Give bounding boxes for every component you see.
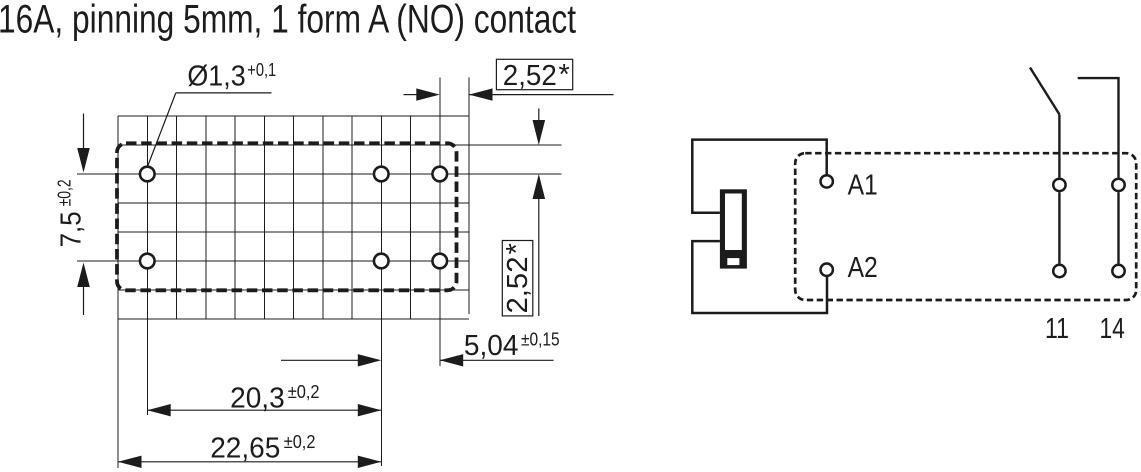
svg-text:±0,2: ±0,2 [55, 179, 75, 206]
svg-text:+0,1: +0,1 [247, 60, 276, 80]
svg-text:*: * [501, 243, 533, 254]
svg-text:2,52: 2,52 [502, 257, 534, 314]
coil symbol [720, 189, 747, 268]
svg-text:20,3: 20,3 [230, 383, 285, 415]
pin hole bottom-right [432, 254, 447, 269]
dimension 2,52 right arrows [533, 109, 546, 317]
dimension text 7,5 ±0,2 (rotated) [55, 179, 88, 247]
contact 14 wire lower [1117, 192, 1119, 263]
boxed dimension text 2,52* top [496, 59, 572, 92]
contact 11 wire [1058, 114, 1060, 263]
coil pin A2 [821, 264, 833, 276]
contact 11 blade [1030, 68, 1059, 115]
svg-text:±0,15: ±0,15 [521, 330, 560, 350]
dimension 20,3 [147, 382, 381, 416]
svg-text:*: * [559, 59, 570, 91]
svg-text:±0,2: ±0,2 [284, 432, 316, 452]
coil pin A1 [821, 175, 833, 187]
svg-text:2,52: 2,52 [503, 60, 557, 92]
raster grid horizontal lines [77, 116, 562, 319]
dimension 5,04 [281, 330, 560, 367]
relay body dashed outline (schematic) [795, 153, 1136, 300]
contact 14 wire [1078, 78, 1119, 177]
dimension 22,65 [118, 432, 381, 468]
pin hole bottom-middle [374, 254, 389, 269]
svg-text:5,04: 5,04 [464, 330, 519, 362]
svg-text:14: 14 [1100, 313, 1125, 345]
pin hole top-left [140, 167, 155, 182]
svg-text:11: 11 [1045, 313, 1069, 345]
svg-text:16A, pinning 5mm, 1 form A (NO: 16A, pinning 5mm, 1 form A (NO) contact [0, 0, 576, 42]
pin hole bottom-left [140, 254, 155, 269]
contact 11 upper pin [1053, 179, 1065, 191]
pin hole top-middle [374, 167, 389, 182]
raster grid vertical lines [118, 78, 469, 469]
contact 14 upper pin [1112, 179, 1124, 191]
svg-text:22,65: 22,65 [210, 432, 280, 464]
svg-text:7,5: 7,5 [56, 211, 88, 247]
svg-text:A1: A1 [848, 169, 878, 201]
dimension 2,52 top arrows [404, 88, 614, 100]
contact 11 lower pin [1053, 265, 1065, 277]
relay footprint dashed outline [117, 143, 457, 290]
pin hole top-right [432, 167, 447, 182]
hole diameter label text [187, 60, 276, 93]
svg-text:±0,2: ±0,2 [288, 382, 320, 402]
boxed dimension text 2,52* right (rotated) [501, 241, 534, 316]
contact 14 lower pin [1112, 265, 1124, 277]
hole diameter label leader line [148, 93, 272, 167]
dimension 7,5 arrows [77, 114, 90, 316]
svg-text:A2: A2 [848, 252, 878, 284]
coil loop wire lower [692, 241, 827, 313]
coil loop wire upper [692, 140, 826, 213]
svg-text:Ø1,3: Ø1,3 [187, 61, 245, 93]
